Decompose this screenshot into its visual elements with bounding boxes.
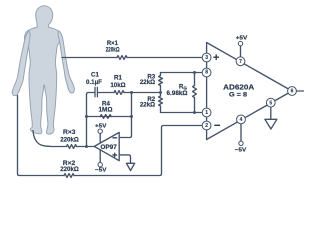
pin 4 circle <box>237 115 246 124</box>
svg-text:1: 1 <box>205 110 208 116</box>
svg-text:1MΩ: 1MΩ <box>99 107 113 114</box>
node: RG top on pin 8 rail <box>193 71 196 74</box>
pin circles AD620A <box>98 41 296 167</box>
svg-text:22kΩ: 22kΩ <box>140 79 155 86</box>
pin 5 circle <box>266 98 275 107</box>
patient left arm <box>12 31 30 96</box>
pin 1 circle <box>202 108 211 117</box>
capacitor C1 plates <box>95 87 97 97</box>
pin 3 circle <box>202 53 211 62</box>
svg-text:10kΩ: 10kΩ <box>110 82 125 89</box>
svg-text:22kΩ: 22kΩ <box>140 102 155 109</box>
ground symbol (OP97 +input) <box>126 163 134 170</box>
node: R4 left end <box>85 115 88 118</box>
resistor R3 22k zigzag (vertical) <box>159 73 163 93</box>
resistor RG 6.98k zigzag (vertical) <box>193 73 197 113</box>
wire: OP97 output column up to C1 <box>87 93 95 147</box>
pin 7 circle <box>236 57 245 66</box>
svg-text:−5V: −5V <box>95 168 107 174</box>
svg-text:R×3: R×3 <box>63 129 76 136</box>
svg-text:−5V: −5V <box>235 148 247 154</box>
svg-text:220kΩ: 220kΩ <box>106 47 120 54</box>
resistor R4 1M zigzag <box>100 115 111 119</box>
svg-text:6.98kΩ: 6.98kΩ <box>167 90 188 97</box>
svg-text:220kΩ: 220kΩ <box>60 136 79 143</box>
wire: OP97 to -5V supply <box>99 150 101 163</box>
svg-text:0.1µF: 0.1µF <box>86 79 102 86</box>
svg-text:3: 3 <box>205 55 208 61</box>
terminal: +5V AD620A <box>238 41 242 45</box>
terminal: -5V AD620A <box>239 141 243 145</box>
wire: +5V supply to AD620A pin 7 <box>240 46 242 57</box>
wire: AD620A pin 1 rail <box>161 112 203 114</box>
node: RG bottom on pin 1 rail <box>193 111 196 114</box>
op-amp U2 AD620A triangle body <box>207 43 292 140</box>
ground symbol (AD620A ref) <box>265 119 277 129</box>
wire: right-arm electrode lead to Rx1 <box>62 57 117 59</box>
wire: AD620A pin 8 rail <box>161 72 203 74</box>
svg-text:4: 4 <box>240 117 243 123</box>
resistor R2 22k zigzag (vertical) <box>159 93 163 113</box>
wire: AD620A pin 5 to ground <box>270 107 272 119</box>
wire: summing node vertical to OP97 inverting input <box>119 93 131 138</box>
svg-text:G = 8: G = 8 <box>229 92 248 99</box>
node: R1/R4/OP97 summing junction on mid wire <box>130 91 133 94</box>
pin 8 circle <box>202 68 211 77</box>
wire: Rx3 to OP97 output node <box>77 146 95 148</box>
wire: Rx1 to AD620A pin 3 <box>127 57 202 59</box>
junction dots <box>85 71 196 148</box>
resistor R1 10k zigzag <box>114 91 124 95</box>
svg-text:R1: R1 <box>114 75 122 82</box>
pin 2 circle <box>202 121 211 130</box>
svg-text:6: 6 <box>291 89 294 95</box>
svg-text:2: 2 <box>205 123 208 129</box>
node: R3/R2 midpoint <box>159 91 162 94</box>
wire: leg electrode arc to Rx3 <box>33 131 67 147</box>
svg-text:+5V: +5V <box>95 123 107 129</box>
svg-text:C1: C1 <box>91 72 99 79</box>
node: OP97 output / Rx3 <box>85 145 88 148</box>
wire: C1 to R1 <box>98 92 114 94</box>
svg-text:7: 7 <box>239 59 242 65</box>
resistor Rx1 220k zigzag <box>117 56 127 60</box>
svg-text:+5V: +5V <box>236 35 248 41</box>
terminal: +5V OP97 <box>98 129 102 133</box>
resistor Rx3 220k zigzag <box>67 145 77 149</box>
op-amp U1 OP97 triangle body <box>94 132 119 160</box>
label - at AD620A pin 2 <box>214 124 220 126</box>
wire: AD620A pin 6 output <box>296 90 304 92</box>
svg-text:AD620A: AD620A <box>223 82 255 91</box>
wire: OP97 non-inverting input to ground <box>119 155 130 163</box>
pin 6 circle <box>288 87 297 96</box>
label + at OP97 non-inverting input <box>112 153 117 158</box>
svg-text:OP97: OP97 <box>100 144 117 151</box>
svg-text:8: 8 <box>205 70 208 76</box>
terminal: -5V OP97 <box>98 163 102 167</box>
label + at AD620A pin 3 <box>213 54 219 60</box>
wire: Rx2 to vertical riser <box>74 126 202 176</box>
patient right arm <box>58 31 74 93</box>
wire: R1 to R3/R2 midpoint node <box>124 92 161 94</box>
node: R4 right end <box>130 115 133 118</box>
patient body silhouette <box>12 6 74 134</box>
label - at OP97 inverting input <box>112 137 117 139</box>
resistor Rx2 220k zigzag <box>64 174 74 178</box>
wire: left-hand electrode lead down left side <box>18 96 65 176</box>
wire: +5V supply to OP97 <box>99 133 101 143</box>
wire: AD620A pin 4 to -5V supply <box>240 124 242 141</box>
wire: R4 feedback rail <box>87 116 132 118</box>
svg-text:5: 5 <box>269 100 272 106</box>
svg-text:220kΩ: 220kΩ <box>60 166 79 173</box>
